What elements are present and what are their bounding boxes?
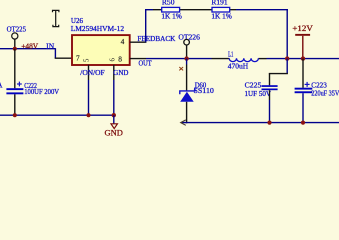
svg-text:FEEDBACK: FEEDBACK xyxy=(137,35,176,43)
svg-text:GND: GND xyxy=(113,68,128,77)
node OT226 terminal circle xyxy=(184,39,190,45)
diode D60 triangle xyxy=(180,92,194,102)
junction C223 / bottom-right rail xyxy=(301,121,305,125)
svg-text:R50: R50 xyxy=(162,0,175,7)
value 220uF 35V xyxy=(311,90,339,98)
ground symbol xyxy=(111,124,117,129)
wire bottom-right rail xyxy=(181,122,339,124)
off-sheet label A (clipped at left edge) xyxy=(0,81,3,90)
pin 5 wire /ON/OF to GND rail xyxy=(88,65,90,115)
wire ground stub xyxy=(113,115,115,124)
ground label GND xyxy=(105,129,123,138)
wire top rail xyxy=(145,9,288,11)
wire feedback vertical xyxy=(145,9,147,42)
label D60 xyxy=(195,81,207,89)
value 100UF 200V xyxy=(24,88,60,96)
svg-text:1K 1%: 1K 1% xyxy=(211,13,232,21)
svg-text:5: 5 xyxy=(83,58,90,62)
capacitor C223 plus sign xyxy=(305,82,310,87)
label C225 xyxy=(245,82,262,90)
off-sheet arrow left xyxy=(181,120,186,125)
node OT225 terminal circle xyxy=(12,33,18,39)
pin 5 number (rotated) xyxy=(83,58,90,62)
pin name FEEDBACK net OT226 label xyxy=(178,33,200,42)
svg-text:LM2594HVM-12: LM2594HVM-12 xyxy=(71,24,125,33)
svg-text:+48V: +48V xyxy=(21,41,38,50)
svg-text:C225: C225 xyxy=(245,82,262,90)
svg-text:L1: L1 xyxy=(228,50,234,58)
capacitor C222 plus sign xyxy=(17,82,22,87)
power port +12V xyxy=(295,34,310,58)
capacitor C222 leads xyxy=(14,49,16,116)
capacitor C223 top lead xyxy=(302,59,304,88)
junction OUT / R191 / C225 branch xyxy=(285,56,289,60)
svg-text:OUT: OUT xyxy=(139,59,153,68)
svg-text:4: 4 xyxy=(121,37,125,46)
svg-text:C223: C223 xyxy=(311,81,327,89)
pin 6 number (rotated) xyxy=(109,58,116,62)
svg-text:1UF 50V: 1UF 50V xyxy=(245,90,272,98)
junction OUT / +12V / C223 xyxy=(301,56,305,60)
junction pin5 / bottom rail xyxy=(86,113,90,117)
pin name IN xyxy=(46,41,55,50)
pin 4 stub xyxy=(130,41,147,43)
svg-text:7: 7 xyxy=(76,54,80,63)
diode D60 top lead xyxy=(186,59,188,92)
wire top rail down to OUT rail xyxy=(286,9,288,59)
net label +48V xyxy=(21,41,38,50)
junction pin6 / bottom rail / ground xyxy=(112,113,116,117)
node OT225 label xyxy=(7,24,27,33)
capacitor C222 plates xyxy=(6,88,23,94)
svg-text:8: 8 xyxy=(118,54,122,63)
wire +48V step down to pin7 xyxy=(55,48,72,58)
capacitor C225 branch wire xyxy=(269,59,288,86)
label L1 xyxy=(228,50,234,58)
power label +12V xyxy=(292,24,312,33)
svg-text:100UF 200V: 100UF 200V xyxy=(24,88,60,96)
pin 7 number xyxy=(76,54,80,63)
label C223 xyxy=(311,81,327,89)
svg-text:+12V: +12V xyxy=(292,24,312,33)
resistor R50 xyxy=(162,7,180,12)
wire OT226 stub xyxy=(186,45,188,58)
value 1K 1% (R50) xyxy=(161,13,182,21)
svg-text:220uF 35V: 220uF 35V xyxy=(311,90,339,98)
pin 4 number xyxy=(121,37,125,46)
value 1K 1% (R191) xyxy=(211,13,232,21)
capacitor C223 plates xyxy=(295,88,313,94)
junction at +48V / C222 xyxy=(13,47,17,51)
label U26 xyxy=(71,16,83,25)
svg-text:/ON/OF: /ON/OF xyxy=(80,68,104,77)
svg-text:R191: R191 xyxy=(211,0,228,7)
label R191 xyxy=(211,0,228,7)
label R50 xyxy=(162,0,175,7)
diode D60 schottky cathode bar xyxy=(180,88,195,95)
pin name /ON/OF xyxy=(80,68,104,77)
svg-text:IN: IN xyxy=(46,41,55,50)
pin name GND xyxy=(113,68,128,77)
junction C222 / bottom rail xyxy=(13,113,17,117)
wire +48V rail left xyxy=(0,48,55,50)
svg-text:1K 1%: 1K 1% xyxy=(161,13,182,21)
pin name FEEDBACK xyxy=(137,35,176,43)
value LM2594HVM-12 xyxy=(71,24,125,33)
capacitor C225 bottom lead xyxy=(269,90,271,122)
wire OT225 stub xyxy=(14,39,16,48)
value SS110 xyxy=(194,87,215,95)
svg-text:SS110: SS110 xyxy=(194,87,215,95)
pin 6 wire GND xyxy=(113,65,115,115)
svg-text:470uH: 470uH xyxy=(228,63,248,71)
pin name OUT xyxy=(139,59,153,68)
capacitor C225 plates xyxy=(262,85,278,90)
inductor L1 leads xyxy=(212,58,339,60)
label C222 xyxy=(24,82,37,90)
inductor L1 coil xyxy=(229,58,258,61)
probe marker I-beam xyxy=(53,10,59,26)
value 1UF 50V xyxy=(245,90,272,98)
value 470uH xyxy=(228,63,248,71)
svg-text:GND: GND xyxy=(105,129,123,138)
resistor R191 xyxy=(212,7,230,12)
no-ERC cross xyxy=(179,67,183,70)
wire bottom-left GND rail xyxy=(0,114,114,116)
junction C225 / bottom-right rail xyxy=(267,121,271,125)
pin 8 number xyxy=(118,54,122,63)
junction OUT / OT226 / D60 xyxy=(184,56,188,60)
op-amp U26 box LM2594HVM-12 xyxy=(72,35,130,65)
pin 8 stub and OUT rail xyxy=(130,58,212,60)
svg-text:6: 6 xyxy=(109,58,116,62)
diode D60 bottom lead xyxy=(186,102,188,124)
capacitor C223 bottom lead xyxy=(302,93,304,122)
svg-text:OT225: OT225 xyxy=(7,24,27,33)
